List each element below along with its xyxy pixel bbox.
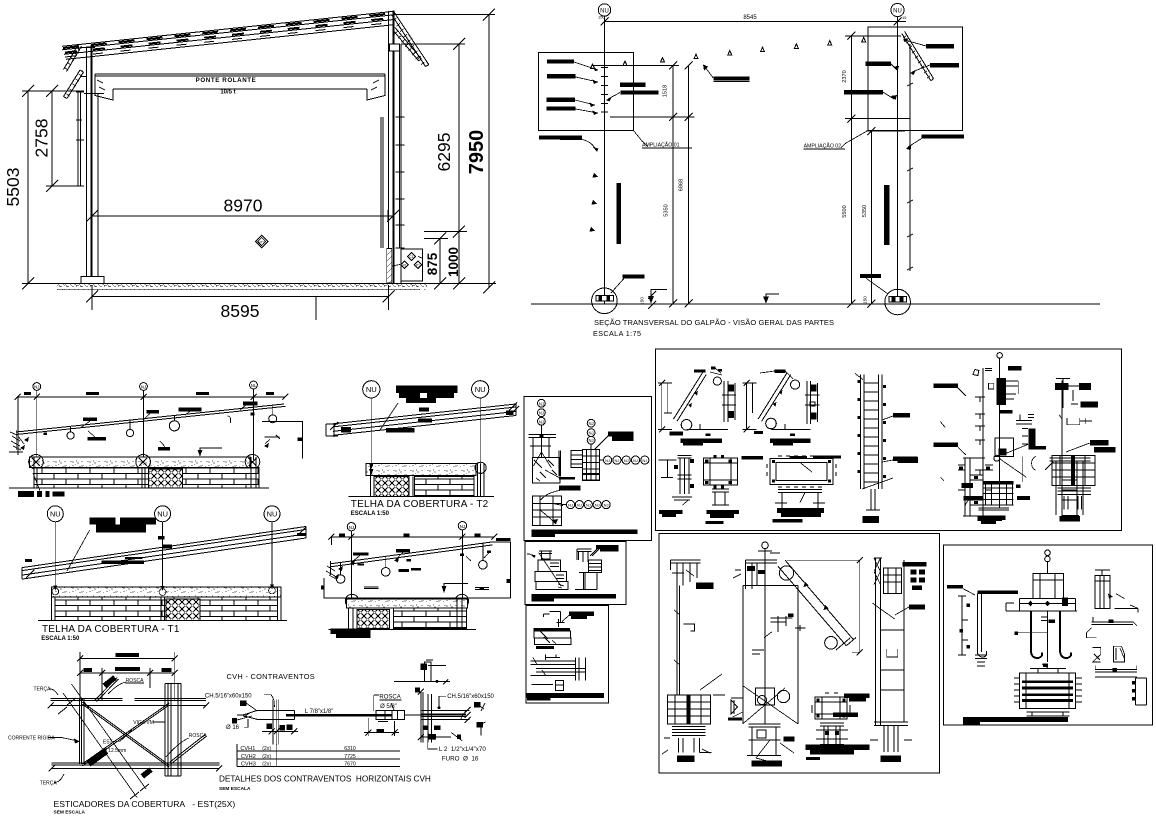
svg-text:CVH - CONTRAVENTOS: CVH - CONTRAVENTOS — [227, 672, 315, 681]
bottom witness tick — [315, 297, 317, 320]
dim line + ticks under plate — [262, 731, 298, 733]
top-right chair detail — [1095, 575, 1110, 608]
redacted bar bottom-left — [18, 491, 34, 497]
right detail — [577, 549, 592, 562]
lower connection detail — [546, 654, 561, 660]
svg-text:AMPLIAÇÃO 02: AMPLIAÇÃO 02 — [804, 143, 842, 150]
sloped roof line — [16, 404, 284, 432]
threaded end stubs — [95, 678, 119, 702]
svg-text:NJ: NJ — [624, 458, 629, 463]
right column — [389, 11, 405, 283]
mid connection — [995, 438, 1014, 457]
dimension 5350 right — [862, 127, 905, 308]
center diamond symbol VT2 — [255, 235, 268, 248]
svg-text:NU: NU — [600, 8, 609, 14]
base — [749, 724, 781, 740]
thin column D — [862, 478, 893, 489]
right roof overhang band 1 — [392, 12, 429, 67]
svg-text:150: 150 — [640, 297, 645, 305]
left column web — [80, 699, 84, 764]
svg-text:L 7/8”x1/8”: L 7/8”x1/8” — [305, 709, 333, 715]
dimension 6295 — [401, 38, 465, 238]
svg-text:CVH3: CVH3 — [241, 762, 256, 768]
svg-text:SEM ESCALA: SEM ESCALA — [54, 809, 86, 815]
dimension 7950 — [394, 9, 495, 294]
leader arrows from bars to column — [574, 62, 598, 113]
left base detail — [529, 435, 557, 458]
svg-text:150: 150 — [862, 296, 867, 304]
left anchor bolt — [947, 585, 963, 589]
right inner crane column face — [381, 117, 383, 248]
svg-text:L 2 1/2”x1/4”x70: L 2 1/2”x1/4”x70 — [439, 746, 487, 753]
frame boundary — [324, 542, 510, 598]
svg-text:5350: 5350 — [664, 204, 670, 216]
small bolted detail center-bottom — [815, 697, 847, 719]
ground step arrow — [444, 584, 468, 587]
circle row 1 — [600, 459, 604, 461]
svg-text:(2x): (2x) — [262, 762, 271, 768]
caption bar — [527, 693, 605, 698]
svg-text:R1: R1 — [402, 263, 406, 267]
purlin hangers — [340, 563, 342, 576]
svg-text:NJ: NJ — [642, 458, 647, 463]
leaders — [80, 404, 247, 447]
floating label bars left of middle column — [934, 383, 967, 481]
ampliacao 02 box — [868, 27, 963, 131]
grid bubbles — [33, 383, 41, 391]
svg-text:TERÇA: TERÇA — [34, 687, 52, 693]
svg-text:CH.5/16”x60x150: CH.5/16”x60x150 — [447, 694, 494, 700]
label bar + leader — [608, 432, 634, 437]
dimension 6868 — [679, 62, 693, 308]
svg-text:SEM ESCALA: SEM ESCALA — [219, 786, 251, 792]
bubble stems — [37, 389, 254, 460]
NU grid bubble left — [598, 4, 611, 20]
svg-text:PONTE ROLANTE: PONTE ROLANTE — [196, 77, 257, 84]
rightmost column detail — [1052, 379, 1115, 521]
svg-text:NJ: NJ — [349, 525, 354, 530]
redacted blob — [90, 518, 116, 525]
svg-text:NJ: NJ — [589, 431, 594, 436]
roof band — [22, 527, 306, 568]
thick redacted vertical bar right — [884, 185, 889, 245]
label bars — [341, 427, 351, 433]
svg-text:8970: 8970 — [224, 196, 263, 216]
brick wall — [55, 597, 277, 620]
right boundary — [262, 406, 303, 458]
svg-text:NJ: NJ — [141, 385, 146, 390]
svg-text:NJ: NJ — [539, 401, 544, 406]
top angle detail — [394, 660, 450, 684]
svg-text:NJ: NJ — [539, 419, 544, 424]
ground line and hatch — [55, 284, 462, 290]
svg-text:NJ: NJ — [539, 411, 544, 416]
svg-text:CVH1: CVH1 — [240, 746, 255, 752]
leaders — [352, 552, 489, 562]
lower sub grid — [583, 473, 600, 480]
svg-text:NU: NU — [366, 385, 377, 394]
bubble stack — [538, 399, 546, 407]
svg-text:NJ: NJ — [34, 385, 39, 390]
svg-text:TERÇA: TERÇA — [40, 781, 58, 787]
left column centerline — [604, 16, 606, 303]
bottom caption bar — [963, 717, 1068, 722]
lower terca I-beam — [52, 763, 220, 769]
NU bubbles — [47, 506, 63, 522]
left wall girt rail (2758) — [76, 92, 84, 186]
right lower beam + bracket — [1095, 670, 1137, 677]
left thin column elevation — [671, 560, 701, 585]
svg-text:6868: 6868 — [679, 179, 685, 191]
purlin cross-section — [533, 628, 570, 631]
top dims — [80, 658, 175, 660]
witness verticals — [272, 700, 278, 745]
label bars — [25, 559, 32, 562]
J-bolts — [1031, 611, 1042, 658]
purlin T sections on left column — [601, 68, 608, 117]
diag brace detail 2 — [743, 370, 820, 446]
svg-text:5350: 5350 — [862, 205, 868, 217]
svg-text:1000: 1000 — [446, 247, 461, 277]
mid label bar — [559, 486, 581, 491]
svg-text:(2x): (2x) — [262, 746, 271, 752]
svg-text:NJ: NJ — [568, 503, 573, 508]
ground — [9, 487, 269, 489]
svg-text:CH.5/16”x60x150: CH.5/16”x60x150 — [205, 693, 252, 699]
svg-text:1518: 1518 — [663, 85, 669, 97]
dimension 875 — [424, 233, 448, 290]
svg-text:CVH2: CVH2 — [241, 754, 256, 760]
right column elevation — [874, 558, 904, 725]
bolt stack connection — [996, 378, 1006, 405]
svg-text:NU: NU — [157, 510, 168, 519]
redacted bar at left base + leader — [623, 274, 645, 278]
left column — [84, 45, 104, 277]
ground step arrow — [200, 448, 222, 450]
roof lines — [331, 542, 493, 564]
stem anchors — [52, 588, 59, 595]
tall bolted strip detail — [855, 374, 918, 511]
svg-text:2370: 2370 — [842, 70, 848, 82]
svg-text:7950: 7950 — [466, 130, 488, 175]
lower X brace + circles — [777, 690, 789, 702]
bottom-right legend box with diamonds — [392, 249, 423, 281]
svg-text:7725: 7725 — [344, 754, 356, 760]
ampliacao 01 leader + label — [634, 131, 693, 149]
ground — [349, 495, 494, 497]
left gusset plate — [243, 711, 294, 720]
black square ticks — [240, 701, 246, 706]
svg-text:5500: 5500 — [842, 205, 848, 217]
dim frame for brace — [787, 560, 860, 652]
central big column elevation — [762, 542, 769, 549]
roof left overhang flashing piece 2 — [64, 70, 87, 99]
svg-text:NJ: NJ — [460, 524, 465, 529]
wall — [345, 594, 358, 607]
dimension 1000 — [392, 226, 496, 290]
svg-text:(2x): (2x) — [262, 754, 271, 760]
wall: window + bricks — [374, 477, 409, 497]
bolted section plan B — [704, 458, 738, 485]
detail box 3 — [526, 606, 609, 703]
left column base circle — [592, 288, 618, 314]
svg-text:TELHA DA COBERTURA - T1: TELHA DA COBERTURA - T1 — [42, 624, 180, 635]
svg-text:NU: NU — [475, 385, 486, 394]
purlin hangers — [67, 405, 277, 439]
long dim diagonals — [63, 684, 146, 798]
redacted blob — [396, 385, 458, 393]
svg-text:NJ: NJ — [589, 438, 594, 443]
right mid angle + plate — [1092, 622, 1134, 625]
two angle glyphs — [1093, 647, 1101, 662]
dimension 8970 — [86, 196, 399, 223]
wall cap — [366, 463, 476, 475]
arrow glyph — [731, 700, 737, 714]
svg-text:FURO Ø 16: FURO Ø 16 — [442, 755, 479, 762]
svg-text:Ø 12.5mm: Ø 12.5mm — [103, 748, 126, 754]
ampliacao 02 leader + label — [804, 131, 868, 150]
top dimension — [331, 536, 494, 538]
wall columns — [34, 457, 256, 488]
roof band — [333, 404, 516, 424]
svg-text:P1: P1 — [416, 263, 420, 267]
right splice cluster — [1016, 414, 1034, 424]
roof diagonal inside box 2 — [902, 32, 934, 81]
right column base circle — [885, 289, 911, 315]
rotated redaction bars — [103, 675, 117, 688]
svg-text:NJ: NJ — [604, 503, 609, 508]
dimension 5350 left — [664, 117, 678, 308]
column F — [1049, 458, 1090, 515]
left stepped detail — [541, 551, 550, 559]
svg-text:DETALHES DOS CONTRAVENTOS HOR: DETALHES DOS CONTRAVENTOS HORIZONTAIS CV… — [219, 775, 431, 784]
svg-text:6295: 6295 — [434, 133, 454, 172]
svg-text:NU: NU — [50, 510, 61, 519]
dimension 2370 — [842, 32, 910, 123]
dim under turnbuckle — [368, 718, 394, 736]
big plan C — [770, 459, 833, 485]
svg-text:NJ: NJ — [589, 421, 594, 426]
thick redacted vertical bar left — [617, 183, 622, 244]
NU grid bubble right — [891, 3, 907, 20]
svg-text:NJ: NJ — [614, 458, 619, 463]
svg-text:ESTICADORES DA COBERTURA - E: ESTICADORES DA COBERTURA - EST(25X) — [54, 799, 236, 809]
right plate assembly — [421, 692, 431, 743]
diag brace detail 1 — [658, 367, 736, 446]
ampliacao 01 box — [538, 52, 633, 130]
svg-text:8595: 8595 — [221, 301, 260, 321]
brick wall — [34, 467, 259, 488]
bottom-left detail — [532, 496, 561, 525]
svg-text:C1: C1 — [409, 255, 413, 259]
detail box 1 — [524, 397, 651, 541]
svg-text:Ø 5/8”: Ø 5/8” — [380, 704, 397, 710]
svg-text:2758: 2758 — [32, 119, 52, 158]
dimension 8595 — [86, 285, 395, 321]
black ticks right — [415, 688, 420, 693]
caption bar — [531, 529, 637, 534]
dimension 1518 — [592, 62, 695, 122]
central double anchor bolts — [1045, 550, 1051, 556]
redacted blob bottom — [331, 629, 371, 634]
ground line — [531, 303, 1100, 305]
right column — [477, 463, 484, 496]
svg-text:6310: 6310 — [344, 746, 356, 752]
svg-text:AMPLIAÇÃO 01: AMPLIAÇÃO 01 — [642, 142, 680, 149]
bottom row small details — [658, 455, 1090, 524]
left eave cluster — [9, 430, 29, 452]
window dark — [149, 469, 183, 488]
roof band — [62, 11, 394, 59]
wall cap — [52, 587, 281, 597]
CVH table — [237, 744, 400, 768]
roof left overhang flashing piece 1 — [64, 44, 82, 72]
left column base plate — [81, 277, 104, 284]
svg-text:NJ: NJ — [595, 503, 600, 508]
thin rod to right assembly — [404, 714, 466, 716]
ground — [38, 620, 287, 622]
wall brick strip below right column — [387, 249, 392, 284]
label bars — [83, 417, 97, 421]
wall cap — [29, 457, 250, 467]
svg-text:8545: 8545 — [743, 15, 757, 21]
dimension 2758 — [32, 85, 81, 192]
right column centerline — [897, 17, 899, 302]
upper terca I-beam — [51, 699, 207, 706]
right roof overhang band 2 — [393, 28, 422, 61]
caption bar — [531, 594, 616, 599]
svg-text:Ø 16: Ø 16 — [226, 725, 240, 731]
detail box 2 — [525, 542, 626, 605]
dimension 8545 — [601, 15, 906, 26]
redacted bars right of column — [620, 83, 646, 87]
svg-text:NU: NU — [267, 510, 278, 519]
left eave cluster — [326, 561, 336, 579]
redacted bar right base + leader — [860, 274, 881, 278]
top dimension line — [18, 396, 286, 398]
svg-text:TELHA DA COBERTURA - T2: TELHA DA COBERTURA - T2 — [351, 499, 489, 510]
ground level marker B — [763, 294, 779, 304]
support circles — [29, 455, 44, 470]
diagonal rods X — [82, 702, 169, 767]
right viga VM column — [165, 684, 181, 777]
svg-text:NJ: NJ — [605, 458, 610, 463]
right column outer face line with girt ticks — [907, 44, 913, 271]
girt arrows on left column — [590, 173, 599, 232]
bolted grid detail — [571, 451, 582, 468]
svg-text:ESCALA 1:50: ESCALA 1:50 — [351, 511, 390, 517]
crane beam PONTE ROLANTE — [95, 74, 385, 100]
base grid — [983, 481, 1013, 485]
dims right — [418, 689, 434, 740]
svg-text:NJ: NJ — [586, 503, 591, 508]
turnbuckle — [376, 710, 404, 719]
svg-text:10/5 t: 10/5 t — [220, 90, 235, 96]
svg-text:CORRENTE RÍGIDA: CORRENTE RÍGIDA — [8, 735, 55, 742]
svg-text:SEÇÃO TRANSVERSAL DO GALPÃO -: SEÇÃO TRANSVERSAL DO GALPÃO - VISÃO GERA… — [594, 318, 834, 327]
redacted label bars left stack — [547, 60, 574, 64]
svg-text:875: 875 — [425, 252, 440, 275]
svg-text:NU: NU — [893, 9, 902, 15]
redacted bar mid with arrow — [713, 76, 749, 80]
redacted bars in/near box 2 — [926, 44, 954, 48]
svg-text:15: 15 — [902, 15, 907, 20]
label bars — [353, 552, 369, 555]
svg-text:7670: 7670 — [344, 762, 356, 768]
ground level marker A — [648, 289, 667, 303]
tie rod — [286, 714, 392, 717]
bottom grillage — [1019, 673, 1075, 709]
dimension 5500 — [842, 119, 856, 308]
top-right label — [596, 545, 619, 549]
svg-text:ESCALA 1:50: ESCALA 1:50 — [41, 636, 80, 642]
svg-text:EST: EST — [103, 739, 113, 745]
top bracket — [544, 612, 561, 623]
svg-text:VIGA VM: VIGA VM — [133, 720, 154, 726]
mid details on column — [771, 616, 806, 632]
svg-text:5503: 5503 — [3, 168, 23, 207]
svg-text:ROSCA: ROSCA — [189, 733, 207, 739]
svg-text:ESCALA 1:75: ESCALA 1:75 — [593, 329, 641, 338]
svg-text:NL: NL — [251, 383, 257, 388]
dim 150 left base — [640, 291, 657, 309]
dimension 5503 — [3, 85, 84, 290]
middle column detail — [961, 353, 1046, 521]
svg-text:NJ: NJ — [577, 503, 582, 508]
center bubbles stack — [587, 419, 595, 427]
svg-text:NJ: NJ — [633, 458, 638, 463]
roof purlin triangles between columns — [661, 37, 866, 62]
diagonal brace — [778, 560, 853, 646]
redacted bar under box + leader — [539, 136, 582, 140]
column E with brackets — [963, 458, 985, 516]
circle row 2 — [562, 504, 567, 506]
svg-text:VT2: VT2 — [259, 240, 265, 244]
